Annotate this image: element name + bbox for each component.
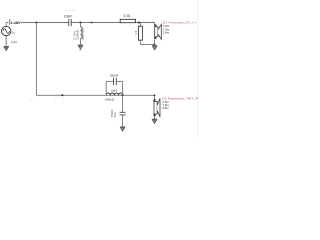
svg-text:1mH: 1mH <box>110 88 116 92</box>
svg-text:140mΩ: 140mΩ <box>105 98 115 102</box>
svg-text:500mΩ: 500mΩ <box>76 29 80 40</box>
svg-text:6.8nF: 6.8nF <box>64 15 72 19</box>
svg-text:0a: 0a <box>12 31 16 35</box>
svg-text:6.8uF 63V: 6.8uF 63V <box>65 9 77 13</box>
svg-text:Z 8m: Z 8m <box>162 106 169 110</box>
svg-text:mes: mes <box>29 98 35 101</box>
svg-text:2.48V: 2.48V <box>10 20 21 25</box>
svg-text:100uH 500: 100uH 500 <box>82 28 85 41</box>
svg-text:35u: 35u <box>113 112 117 117</box>
svg-text:Z 8m: Z 8m <box>163 30 170 34</box>
svg-text:350nF: 350nF <box>110 73 119 77</box>
svg-text:3.3Ω: 3.3Ω <box>123 14 130 18</box>
svg-text:1kHz: 1kHz <box>11 40 18 44</box>
svg-text:1.5: 1.5 <box>134 30 138 35</box>
